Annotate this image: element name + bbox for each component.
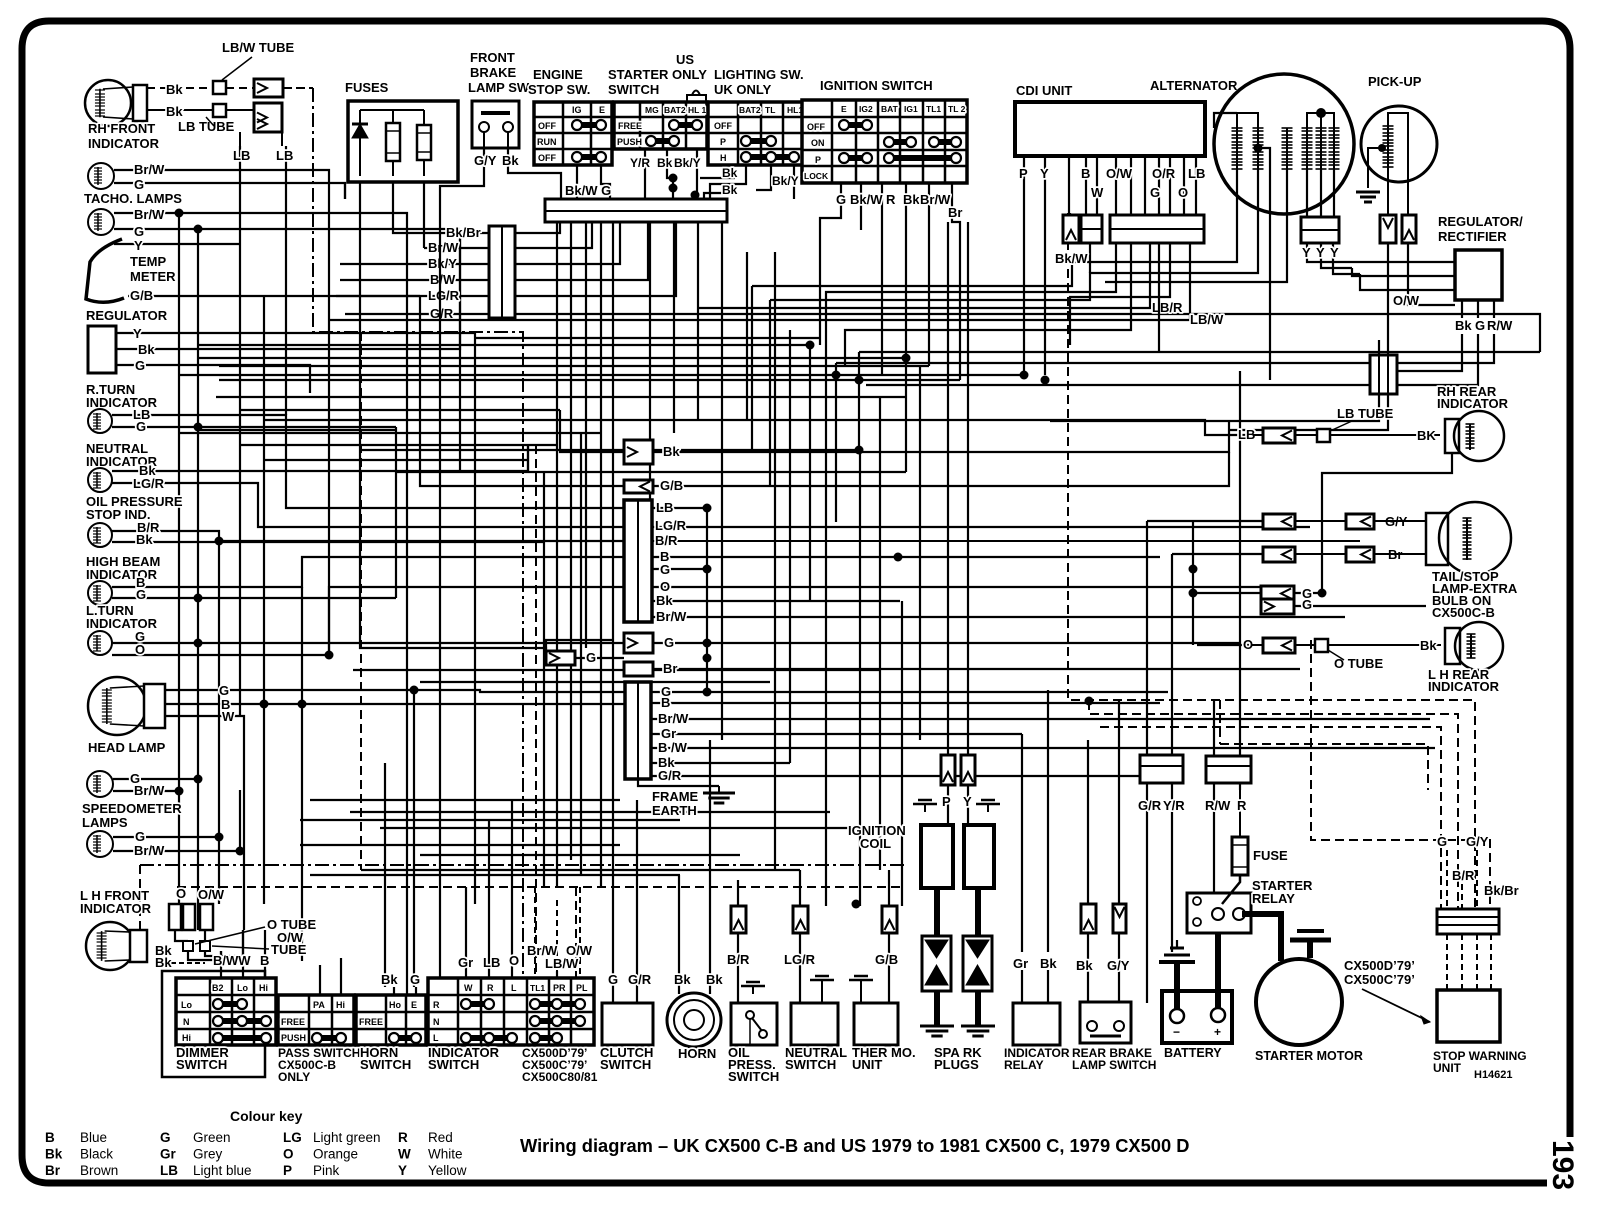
wire reg Bk v: [1397, 334, 1462, 371]
wire cdi P: [1023, 156, 1025, 375]
wire lh 358: [198, 357, 906, 359]
svg-text:LAMP SWITCH: LAMP SWITCH: [1072, 1058, 1156, 1072]
svg-text:O/W: O/W: [1106, 166, 1133, 181]
wire o row left: [1197, 644, 1252, 646]
svg-text:PICK-UP: PICK-UP: [1368, 74, 1422, 89]
tube squares: [155, 941, 210, 958]
wire stack BR right: [652, 540, 1360, 542]
connector below CDI small: [1063, 215, 1079, 243]
wire trunk G x198: [197, 229, 199, 904]
wire v 906b: [905, 450, 907, 472]
node j hb G: [194, 594, 203, 603]
svg-text:P: P: [1019, 166, 1028, 181]
wire fbls Bk: [508, 148, 561, 199]
ignition coil 2: [964, 825, 994, 888]
connectors above rear brake: [1081, 904, 1126, 933]
wire conn2 down1: [1050, 394, 1379, 421]
wire harness Br/W r: [515, 222, 592, 248]
wire dash B: [1089, 701, 1458, 909]
connector G arrow mid: [624, 633, 674, 653]
wire swu GY v: [1476, 850, 1478, 909]
node j lt G: [194, 639, 203, 648]
svg-text:Gr: Gr: [160, 1147, 177, 1162]
pick-up: [1361, 74, 1437, 182]
wire dim Lo up: [242, 930, 244, 978]
svg-text:P: P: [720, 137, 726, 147]
node j 859 450: [855, 446, 864, 455]
wire ind W up: [465, 930, 467, 978]
svg-text:G/Y: G/Y: [474, 153, 497, 168]
wire pass Hi up: [340, 958, 342, 995]
svg-text:B2: B2: [212, 983, 224, 993]
svg-text:STOP SW.: STOP SW.: [528, 82, 590, 97]
wire regulator Bk: [116, 229, 460, 349]
svg-text:Y: Y: [963, 794, 972, 809]
svg-text:Bk/W: Bk/W: [1055, 251, 1088, 266]
fuse box FUSES: [345, 80, 458, 182]
wire trunk x219: [218, 541, 220, 904]
node alt coil dot: [1254, 144, 1263, 153]
svg-text:IG: IG: [572, 105, 582, 115]
svg-text:OFF: OFF: [538, 121, 556, 131]
horn switch table: [356, 995, 426, 1045]
wire bar v2: [585, 222, 587, 648]
svg-text:LB TUBE: LB TUBE: [1337, 406, 1394, 421]
svg-text:LB: LB: [233, 148, 250, 163]
svg-text:Y: Y: [1330, 245, 1339, 260]
wire trunk x396: [395, 427, 397, 598]
svg-text:Bk: Bk: [706, 972, 723, 987]
wire highbeam B: [112, 557, 624, 587]
svg-text:PLUGS: PLUGS: [934, 1057, 979, 1072]
wire speedo2 Br/W: [113, 790, 240, 851]
CDI unit: [1015, 83, 1205, 156]
svg-text:R: R: [398, 1130, 408, 1145]
label HORN SWITCH: [360, 1045, 411, 1072]
label O TUBE: [1328, 650, 1383, 671]
svg-text:FUSE: FUSE: [1253, 848, 1288, 863]
wire bh 870: [361, 869, 800, 871]
wire bh 682: [420, 681, 770, 683]
wire dash F: [1311, 640, 1490, 909]
node j hl B2: [298, 700, 307, 709]
spark plug 2: [961, 888, 995, 1036]
svg-text:Br/W: Br/W: [656, 609, 687, 624]
wire pickup r down: [1408, 243, 1455, 305]
svg-text:B/R: B/R: [1452, 868, 1475, 883]
svg-text:W: W: [398, 1147, 411, 1162]
svg-text:Gr: Gr: [661, 726, 676, 741]
starter switch table: [608, 67, 707, 149]
svg-text:Grey: Grey: [193, 1147, 223, 1162]
wire cdi O: [1183, 156, 1185, 215]
wire lh 380: [219, 379, 960, 381]
wire regulator G: [116, 365, 310, 393]
ignition coil P Y connectors: [913, 755, 1000, 812]
svg-text:TEMP: TEMP: [130, 254, 166, 269]
wire gg left: [1193, 592, 1261, 594]
svg-text:Hi: Hi: [336, 1000, 345, 1010]
svg-text:TL1: TL1: [926, 104, 941, 114]
svg-text:FREE: FREE: [359, 1017, 383, 1027]
svg-text:Bk: Bk: [1455, 318, 1472, 333]
svg-text:Hi: Hi: [182, 1033, 191, 1043]
svg-text:INDICATOR: INDICATOR: [88, 136, 160, 151]
wire tacho1 Br/W: [114, 170, 329, 314]
svg-text:ALTERNATOR: ALTERNATOR: [1150, 78, 1238, 93]
wire mid v1: [751, 286, 753, 452]
node j 1024 375: [1020, 371, 1029, 380]
wire lh 430: [198, 429, 396, 431]
wire v 902: [901, 601, 903, 906]
svg-text:Lo: Lo: [181, 1000, 192, 1010]
svg-text:SWITCH: SWITCH: [785, 1057, 836, 1072]
wire Bk solid to LB tube: [147, 104, 213, 119]
svg-text:O: O: [135, 642, 145, 657]
wire lh 410: [240, 409, 560, 411]
svg-text:Bk: Bk: [656, 593, 673, 608]
svg-text:Bk: Bk: [1076, 958, 1093, 973]
wire v 859: [858, 352, 860, 450]
clutch switch: [600, 972, 653, 1072]
node j 707 692: [703, 688, 712, 697]
svg-text:Brown: Brown: [80, 1163, 118, 1178]
svg-text:Br: Br: [663, 661, 677, 676]
wire ign G: [820, 183, 841, 345]
starter relay: [1187, 878, 1313, 933]
wire lh 366: [219, 365, 929, 367]
wire speedo1 G: [113, 778, 198, 780]
wire indrelay Bk up: [1047, 690, 1049, 952]
wire headlamp G: [165, 690, 625, 692]
node j 810 345: [806, 341, 815, 350]
wire dash 445: [535, 445, 537, 978]
lamp SPEEDOMETER 1: [87, 771, 165, 798]
wire neutral v2: [799, 870, 801, 906]
pick-up connectors: [1380, 215, 1396, 243]
svg-text:FREE: FREE: [281, 1017, 305, 1027]
wire feed Bk/Y: [340, 263, 489, 265]
svg-text:Br/W: Br/W: [658, 711, 689, 726]
wire conn o down: [175, 930, 188, 941]
wire ls TL: [756, 165, 771, 190]
thermo unit: [849, 952, 916, 1072]
wire horn Ho up: [393, 987, 395, 995]
wire stack Bk2 right: [652, 600, 900, 602]
svg-text:Hi: Hi: [259, 983, 268, 993]
wire headlamp B: [165, 703, 625, 705]
wire lh 450: [360, 449, 859, 451]
wire rwR up2: [1239, 371, 1241, 756]
wire ign TL2: [952, 183, 960, 380]
regulator: [86, 308, 168, 373]
wire grYr v2: [1171, 783, 1173, 952]
wire dash 887: [177, 886, 905, 888]
svg-text:Bk: Bk: [1420, 638, 1437, 653]
wire gg row right1: [1294, 592, 1322, 594]
wire lh 338: [475, 337, 820, 339]
wire v Bk conn: [652, 451, 654, 453]
wire dash 865: [140, 864, 905, 866]
svg-text:Bk: Bk: [722, 166, 738, 180]
ignition switch table: [802, 78, 967, 183]
svg-text:TL1: TL1: [530, 983, 545, 993]
alternator coils: [1232, 128, 1340, 170]
node j hl B1: [260, 700, 269, 709]
wire trunk x240: [239, 146, 241, 716]
wire stack LGR right: [652, 526, 1310, 528]
wire harn right 363: [836, 362, 1370, 364]
wire temp Y: [114, 243, 240, 245]
wire ign BrW: [928, 183, 930, 366]
wire bar v3: [556, 222, 558, 887]
svg-text:Bk/Y: Bk/Y: [428, 256, 457, 271]
wire regulator Y: [116, 332, 475, 334]
svg-text:Light blue: Light blue: [193, 1163, 252, 1178]
wire rturn G: [112, 426, 396, 428]
wire stack LB right: [652, 507, 707, 509]
svg-text:TACHO. LAMPS: TACHO. LAMPS: [84, 191, 182, 206]
svg-text:G: G: [160, 1130, 171, 1145]
node j oil Bk: [215, 537, 224, 546]
svg-text:Lo: Lo: [237, 983, 248, 993]
wire pickup l down: [1387, 243, 1389, 355]
wire g arrow to: [575, 657, 624, 659]
svg-text:BAT: BAT: [881, 104, 899, 114]
wire horn E up: [415, 987, 417, 995]
svg-text:IG2: IG2: [859, 104, 873, 114]
wire mid v3: [789, 330, 791, 520]
svg-text:L: L: [433, 1033, 439, 1043]
wire rw to relay: [1213, 870, 1215, 893]
svg-text:COIL: COIL: [860, 836, 891, 851]
svg-text:Blue: Blue: [80, 1130, 107, 1145]
wire lturn O: [112, 587, 624, 655]
wire stack2 Bk right: [651, 762, 790, 764]
lamp RH FRONT INDICATOR: [85, 80, 160, 151]
wire trunk x407: [406, 250, 408, 995]
svg-text:FRONT: FRONT: [470, 50, 515, 65]
wire thermo v: [888, 933, 890, 1003]
wire cdi w down3: [1158, 243, 1160, 352]
node j 1193b: [1189, 589, 1198, 598]
wire dash 576: [575, 887, 577, 978]
svg-text:Pink: Pink: [313, 1163, 340, 1178]
wire trunk x475 Y: [474, 333, 476, 904]
connector trio left: [169, 886, 225, 930]
svg-text:EARTH: EARTH: [652, 803, 697, 818]
svg-text:G: G: [1150, 185, 1160, 200]
svg-text:B: B: [260, 953, 269, 968]
wire LB row to RH rear: [1238, 427, 1440, 443]
svg-text:LG/R: LG/R: [784, 952, 816, 967]
svg-text:BAT2: BAT2: [739, 105, 761, 115]
connector G G double: [1261, 586, 1312, 614]
svg-text:R/W: R/W: [1205, 798, 1231, 813]
wire lh 472: [396, 471, 906, 473]
svg-text:R/W: R/W: [1487, 318, 1513, 333]
svg-text:G: G: [664, 635, 674, 650]
wire horn Bk v2: [709, 740, 711, 994]
svg-text:RELAY: RELAY: [1252, 891, 1295, 906]
svg-text:Bk/Y: Bk/Y: [674, 156, 701, 170]
wire trunk x264: [263, 296, 265, 904]
svg-text:Bk: Bk: [45, 1147, 63, 1162]
svg-text:PUSH: PUSH: [617, 137, 642, 147]
wire swu d1: [1446, 934, 1448, 990]
wire horn Bk long: [384, 763, 386, 870]
wire ind Gr long: [465, 887, 467, 930]
labels Y/R Bk Bk/Y: [630, 156, 799, 197]
svg-text:LB: LB: [1188, 166, 1205, 181]
wire swu BR v: [1461, 884, 1463, 909]
wire trunk x286: [285, 146, 287, 415]
svg-text:LG/R: LG/R: [655, 518, 687, 533]
svg-text:INDICATOR: INDICATOR: [86, 567, 158, 582]
dimmer switch outer box: [162, 971, 265, 1077]
connector Br row: [1263, 547, 1426, 562]
wire ind PL up: [579, 958, 581, 978]
wire lh 433: [179, 432, 601, 434]
wire trunk x345: [344, 183, 346, 199]
node j 1045 375: [1041, 376, 1050, 385]
svg-text:PUSH: PUSH: [281, 1033, 306, 1043]
svg-text:LIGHTING SW.: LIGHTING SW.: [714, 67, 804, 82]
wire bl h2: [178, 904, 180, 930]
svg-text:MG: MG: [645, 105, 659, 115]
wire cdi w down2: [845, 243, 1131, 345]
wire bar v9: [721, 222, 723, 740]
wire reg RW: [1493, 300, 1495, 318]
wire cdi Y: [1044, 156, 1046, 375]
wire rturn LB: [112, 415, 624, 508]
wire gy row left: [1147, 520, 1263, 522]
labels B/WW B: [213, 953, 269, 968]
svg-text:−: −: [1173, 1025, 1180, 1039]
frame earth: [652, 786, 735, 818]
svg-text:N: N: [183, 1017, 190, 1027]
wire bh 828: [380, 827, 900, 829]
wire clutch GR up: [636, 800, 638, 1003]
node j 1089 887: [852, 900, 861, 909]
svg-text:P: P: [283, 1163, 292, 1178]
svg-text:B/R: B/R: [727, 952, 750, 967]
svg-text:G: G: [219, 683, 229, 698]
wire ls bk jog: [700, 177, 735, 179]
wire pickup l2: [1378, 340, 1380, 355]
svg-text:193: 193: [1546, 1140, 1579, 1190]
label CX500D79: [522, 1046, 598, 1084]
wire v 707: [706, 508, 708, 692]
svg-text:H14621: H14621: [1474, 1069, 1513, 1081]
wire harness B/W r: [515, 222, 648, 280]
lamp R.TURN INDICATOR: [86, 382, 158, 434]
wire feed LG/R: [336, 295, 489, 297]
node j 414 689: [410, 686, 419, 695]
node j lt O: [325, 651, 334, 660]
svg-text:N: N: [433, 1017, 440, 1027]
label LB TUBE: [178, 117, 235, 134]
svg-text:Bk: Bk: [1040, 956, 1057, 971]
wire lh 375: [179, 374, 1024, 376]
svg-text:LB: LB: [276, 148, 293, 163]
label SPEEDOMETER LAMPS: [82, 801, 182, 830]
wire harness LG/R r: [515, 222, 676, 296]
wire harness Bk/Y r: [515, 222, 620, 264]
svg-text:Bk: Bk: [722, 183, 738, 197]
wire cdi LB: [1195, 156, 1197, 215]
connector harness tall: [489, 226, 515, 318]
svg-text:O: O: [176, 886, 186, 901]
svg-text:Bk: Bk: [663, 444, 680, 459]
svg-text:Bk: Bk: [657, 156, 673, 170]
wire ind L up: [511, 930, 513, 978]
wire horn G long: [413, 692, 415, 920]
svg-text:Bk/Y: Bk/Y: [772, 174, 799, 188]
svg-text:Bk/Br: Bk/Br: [1484, 883, 1519, 898]
wire coil Y long: [967, 222, 969, 740]
svg-text:BATTERY: BATTERY: [1164, 1046, 1222, 1060]
wire bh Bk horn: [384, 870, 386, 987]
wire dash LBW col: [556, 900, 558, 971]
wire oil BR v: [737, 933, 739, 1003]
wire clutch G up: [612, 640, 614, 1003]
wire oil Bk: [112, 541, 545, 543]
svg-text:G/B: G/B: [130, 288, 153, 303]
wire feed G/R: [345, 313, 489, 315]
wire reg G: [1477, 300, 1479, 318]
wire cdi 3: [1068, 156, 1070, 215]
wire stack O right: [652, 586, 1280, 588]
wire swu G v: [1446, 850, 1448, 909]
wire horn Bk v: [678, 875, 680, 994]
neutral switch: [784, 952, 847, 1072]
svg-text:REGULATOR: REGULATOR: [86, 308, 168, 323]
node j 1193a: [1189, 565, 1198, 574]
lamp NEUTRAL INDICATOR: [86, 441, 165, 492]
wire br row left: [1172, 553, 1263, 555]
svg-text:W: W: [222, 709, 235, 724]
svg-text:G: G: [134, 177, 144, 192]
svg-text:FUSES: FUSES: [345, 80, 389, 95]
svg-text:TL 2: TL 2: [948, 104, 966, 114]
svg-text:Wiring diagram – UK CX500 C-B: Wiring diagram – UK CX500 C-B and US 197…: [520, 1135, 1189, 1156]
wire v 544: [543, 472, 545, 887]
svg-text:IGNITION SWITCH: IGNITION SWITCH: [820, 78, 933, 93]
wire indrelay Gr up: [1021, 734, 1023, 952]
svg-text:L: L: [511, 983, 517, 993]
connector above oil press: [731, 906, 746, 933]
label SPARK PLUGS: [934, 1045, 982, 1072]
wire thermo v2: [888, 870, 890, 906]
wire conn2 down2: [1229, 394, 1388, 430]
svg-text:Br/W: Br/W: [428, 240, 459, 255]
svg-text:Br/W: Br/W: [920, 192, 951, 207]
wire ign coil Y up: [967, 740, 969, 755]
alternator: [1150, 74, 1354, 214]
node j sp G: [194, 775, 203, 784]
wire ign Bk: [905, 183, 907, 450]
svg-text:Bk: Bk: [166, 104, 183, 119]
rear brake lamp switch: [1072, 958, 1156, 1072]
wire neutral LG/R: [112, 483, 624, 527]
pass switch table: [278, 995, 354, 1045]
svg-text:Bk: Bk: [381, 972, 398, 987]
svg-text:G: G: [1437, 834, 1447, 849]
wire lh 460: [264, 459, 528, 461]
indicator switch table: [428, 978, 594, 1045]
svg-text:LB/W TUBE: LB/W TUBE: [222, 40, 295, 55]
